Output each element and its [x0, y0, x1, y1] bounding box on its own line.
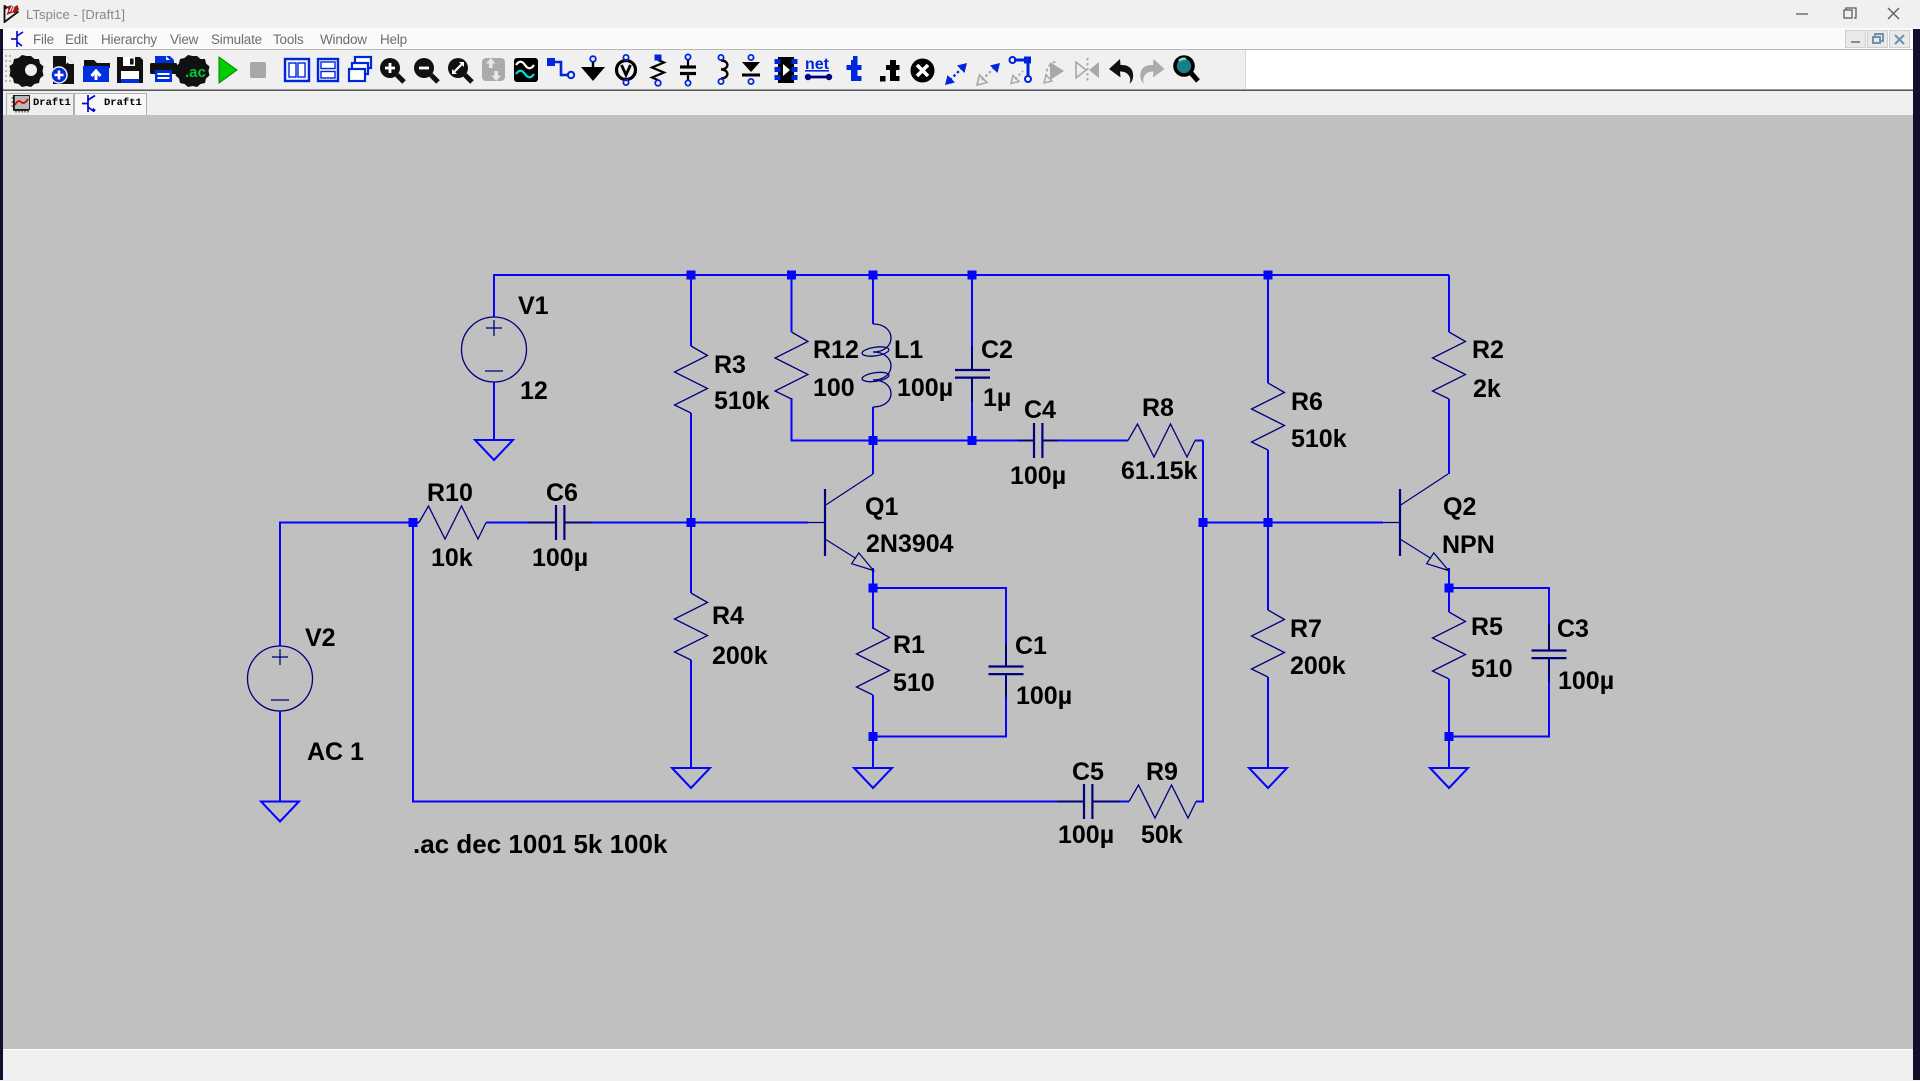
wire R5 ground stem: [1448, 737, 1450, 769]
ground R4 gnd: [672, 768, 710, 788]
svg-text:R3: R3: [714, 351, 746, 379]
svg-text:R12: R12: [813, 336, 859, 364]
svg-text:net: net: [805, 56, 830, 73]
ground V2 gnd: [261, 802, 299, 822]
node A2: [787, 271, 796, 280]
resistor R7: [1252, 610, 1285, 677]
wire R3 bottom: [690, 413, 692, 523]
svg-text:R6: R6: [1291, 388, 1323, 416]
wire R5 C3 bottom tie: [1449, 736, 1549, 738]
capacitor C2: [955, 370, 990, 378]
svg-text:61.15k: 61.15k: [1121, 457, 1198, 485]
wire Q2 emitter: [1448, 568, 1450, 588]
svg-text:510: 510: [893, 669, 935, 697]
node C2n: [687, 518, 696, 527]
wire V2 top lead: [279, 522, 281, 647]
svg-text:C1: C1: [1015, 632, 1047, 660]
svg-text:100: 100: [813, 374, 855, 402]
wire R3 top: [690, 275, 692, 346]
svg-text:R8: R8: [1142, 394, 1174, 422]
wire left return vertical: [412, 523, 414, 802]
svg-text:100µ: 100µ: [897, 374, 953, 402]
svg-text:V2: V2: [305, 624, 336, 652]
wire input to R10: [280, 522, 419, 524]
svg-text:100µ: 100µ: [1016, 682, 1072, 710]
resistor R9: [1129, 785, 1196, 818]
svg-text:Q1: Q1: [865, 493, 898, 521]
svg-text:2N3904: 2N3904: [866, 530, 954, 558]
svg-text:R1: R1: [893, 631, 925, 659]
svg-text:C4: C4: [1024, 396, 1056, 424]
node C1n: [409, 518, 418, 527]
wire R6 top: [1267, 275, 1269, 383]
wire C4 to R8: [1043, 440, 1129, 442]
resistor R2: [1433, 332, 1466, 399]
wire R1 bottom: [872, 695, 874, 737]
wire R5 top: [1448, 588, 1450, 612]
svg-text:C3: C3: [1557, 615, 1589, 643]
node B2: [968, 436, 977, 445]
svg-text:V1: V1: [518, 292, 549, 320]
node E2: [1445, 732, 1454, 741]
ground R7 gnd: [1249, 768, 1287, 788]
wire R12 bottom: [791, 398, 793, 441]
wire V1 minus lead: [493, 382, 495, 440]
svg-text:2k: 2k: [1473, 375, 1501, 403]
wire mid rail to C4: [791, 440, 1035, 442]
svg-text:50k: 50k: [1141, 821, 1183, 849]
title bar: [0, 0, 1920, 28]
svg-text:C5: C5: [1072, 758, 1104, 786]
svg-text:510k: 510k: [714, 387, 770, 415]
wire C6 to base node: [565, 522, 692, 524]
menu bar: [0, 28, 1920, 50]
inductor L1: [862, 324, 891, 407]
wire R2 top: [1448, 275, 1450, 332]
wire Q1 emitter node to C1: [873, 587, 1006, 589]
window buttons: [1770, 0, 1920, 28]
node C3n: [1199, 518, 1208, 527]
svg-text:R2: R2: [1472, 336, 1504, 364]
capacitor C6: [556, 505, 564, 540]
wire R4 top: [690, 523, 692, 594]
toolbar strip: [0, 50, 1920, 90]
wire Q2 emitter node to C3: [1449, 587, 1549, 589]
wire R1 C1 bottom tie: [873, 736, 1006, 738]
capacitor C4: [1034, 423, 1042, 458]
svg-text:100µ: 100µ: [532, 544, 588, 572]
capacitor C3: [1532, 651, 1567, 659]
resistor R4: [675, 593, 708, 660]
svg-text:1µ: 1µ: [983, 384, 1011, 412]
svg-text:R5: R5: [1471, 613, 1503, 641]
wire R2 to Q2 collector: [1448, 399, 1450, 474]
transistor Q1 (NPN): [808, 474, 874, 571]
svg-text:510: 510: [1471, 655, 1513, 683]
wire R10 to C6: [486, 522, 556, 524]
wire C2 top: [971, 275, 973, 370]
svg-text:510k: 510k: [1291, 425, 1347, 453]
LTspice app icon: [3, 3, 23, 23]
svg-text:R4: R4: [712, 602, 744, 630]
node D2: [1445, 584, 1454, 593]
svg-text:R10: R10: [427, 479, 473, 507]
node B1: [869, 436, 878, 445]
svg-text:R9: R9: [1146, 758, 1178, 786]
wire bottom return rail: [412, 801, 1084, 803]
svg-text:200k: 200k: [712, 642, 768, 670]
wire C2 bottom: [971, 378, 973, 440]
wire R8 out: [1195, 440, 1203, 442]
capacitor C5: [1084, 784, 1092, 819]
wire R4 bottom: [690, 660, 692, 768]
capacitor lead stubs (navy): [528, 346, 1549, 802]
wire Q1 emitter: [872, 568, 874, 588]
voltage source V2: [248, 646, 313, 711]
ground V1 gnd: [475, 440, 513, 460]
wire divider to Q2 base: [1268, 522, 1383, 524]
voltage source V1: [462, 317, 527, 382]
node A1: [687, 271, 696, 280]
svg-text:C6: C6: [546, 479, 578, 507]
svg-text:100µ: 100µ: [1558, 667, 1614, 695]
ground R5 gnd: [1430, 768, 1468, 788]
resistor R5: [1433, 612, 1466, 679]
wire R9 out: [1196, 801, 1204, 803]
node E1: [869, 732, 878, 741]
svg-text:NPN: NPN: [1442, 531, 1495, 559]
ground R1 gnd: [854, 768, 892, 788]
wire R7 top: [1267, 523, 1269, 611]
wire C3 bottom lead: [1548, 658, 1550, 738]
svg-text:100µ: 100µ: [1010, 462, 1066, 490]
menu schematic mini icon: [11, 31, 24, 48]
wire C1 bottom lead: [1005, 674, 1007, 738]
node A5: [1264, 271, 1273, 280]
toolbar icons: [0, 52, 1250, 88]
resistor R8: [1128, 424, 1195, 457]
svg-text:AC 1: AC 1: [307, 738, 364, 766]
wire R1 top: [872, 588, 874, 629]
wire V1 plus lead: [493, 274, 495, 317]
window frame edges: [0, 29, 3, 1080]
transistor Q2 (NPN): [1383, 474, 1449, 571]
wire C1 top lead: [1005, 587, 1007, 667]
wire L1 bottom: [872, 407, 874, 440]
wire Q1 collector: [872, 441, 874, 475]
svg-text:C2: C2: [981, 336, 1013, 364]
node A3: [869, 271, 878, 280]
wire V2 bottom lead: [279, 711, 281, 802]
svg-text:100µ: 100µ: [1058, 821, 1114, 849]
svg-text:200k: 200k: [1290, 652, 1346, 680]
svg-text:R7: R7: [1290, 615, 1322, 643]
wire R8 node to divider: [1203, 522, 1268, 524]
resistor R1: [857, 628, 890, 695]
resistor R3: [675, 346, 708, 413]
wire R5 bottom: [1448, 679, 1450, 737]
wire R12 top: [791, 275, 793, 332]
node D1: [869, 584, 878, 593]
tab: Draft1 waveform: [6, 93, 74, 115]
wire R7 bottom: [1267, 677, 1269, 768]
svg-text:.ac dec 1001 5k 100k: .ac dec 1001 5k 100k: [413, 829, 668, 859]
wire C5 to R9: [1093, 801, 1130, 803]
tab: Draft1 schematic (active): [74, 93, 147, 115]
node A4: [968, 271, 977, 280]
wire base node to Q1: [691, 522, 808, 524]
resistor R10: [419, 506, 486, 539]
tab bar: [0, 90, 1920, 115]
node C4n: [1264, 518, 1273, 527]
svg-text:10k: 10k: [431, 544, 473, 572]
wire R6 bottom: [1267, 450, 1269, 523]
wire feedback vertical: [1202, 441, 1204, 802]
wire top supply rail: [494, 274, 1449, 276]
svg-text:L1: L1: [894, 336, 923, 364]
resistor R6: [1252, 383, 1285, 450]
svg-text:12: 12: [520, 377, 548, 405]
wire L1 top: [872, 275, 874, 324]
svg-text:.ac: .ac: [185, 64, 206, 81]
title text: [26, 7, 125, 22]
capacitor C1: [989, 667, 1024, 675]
svg-text:Q2: Q2: [1443, 493, 1476, 521]
mdi child window buttons: [1845, 30, 1913, 49]
wire R1 ground stem: [872, 737, 874, 769]
resistor R12: [775, 332, 808, 399]
status bar: [0, 1049, 1920, 1081]
wire C3 top lead: [1548, 587, 1550, 647]
